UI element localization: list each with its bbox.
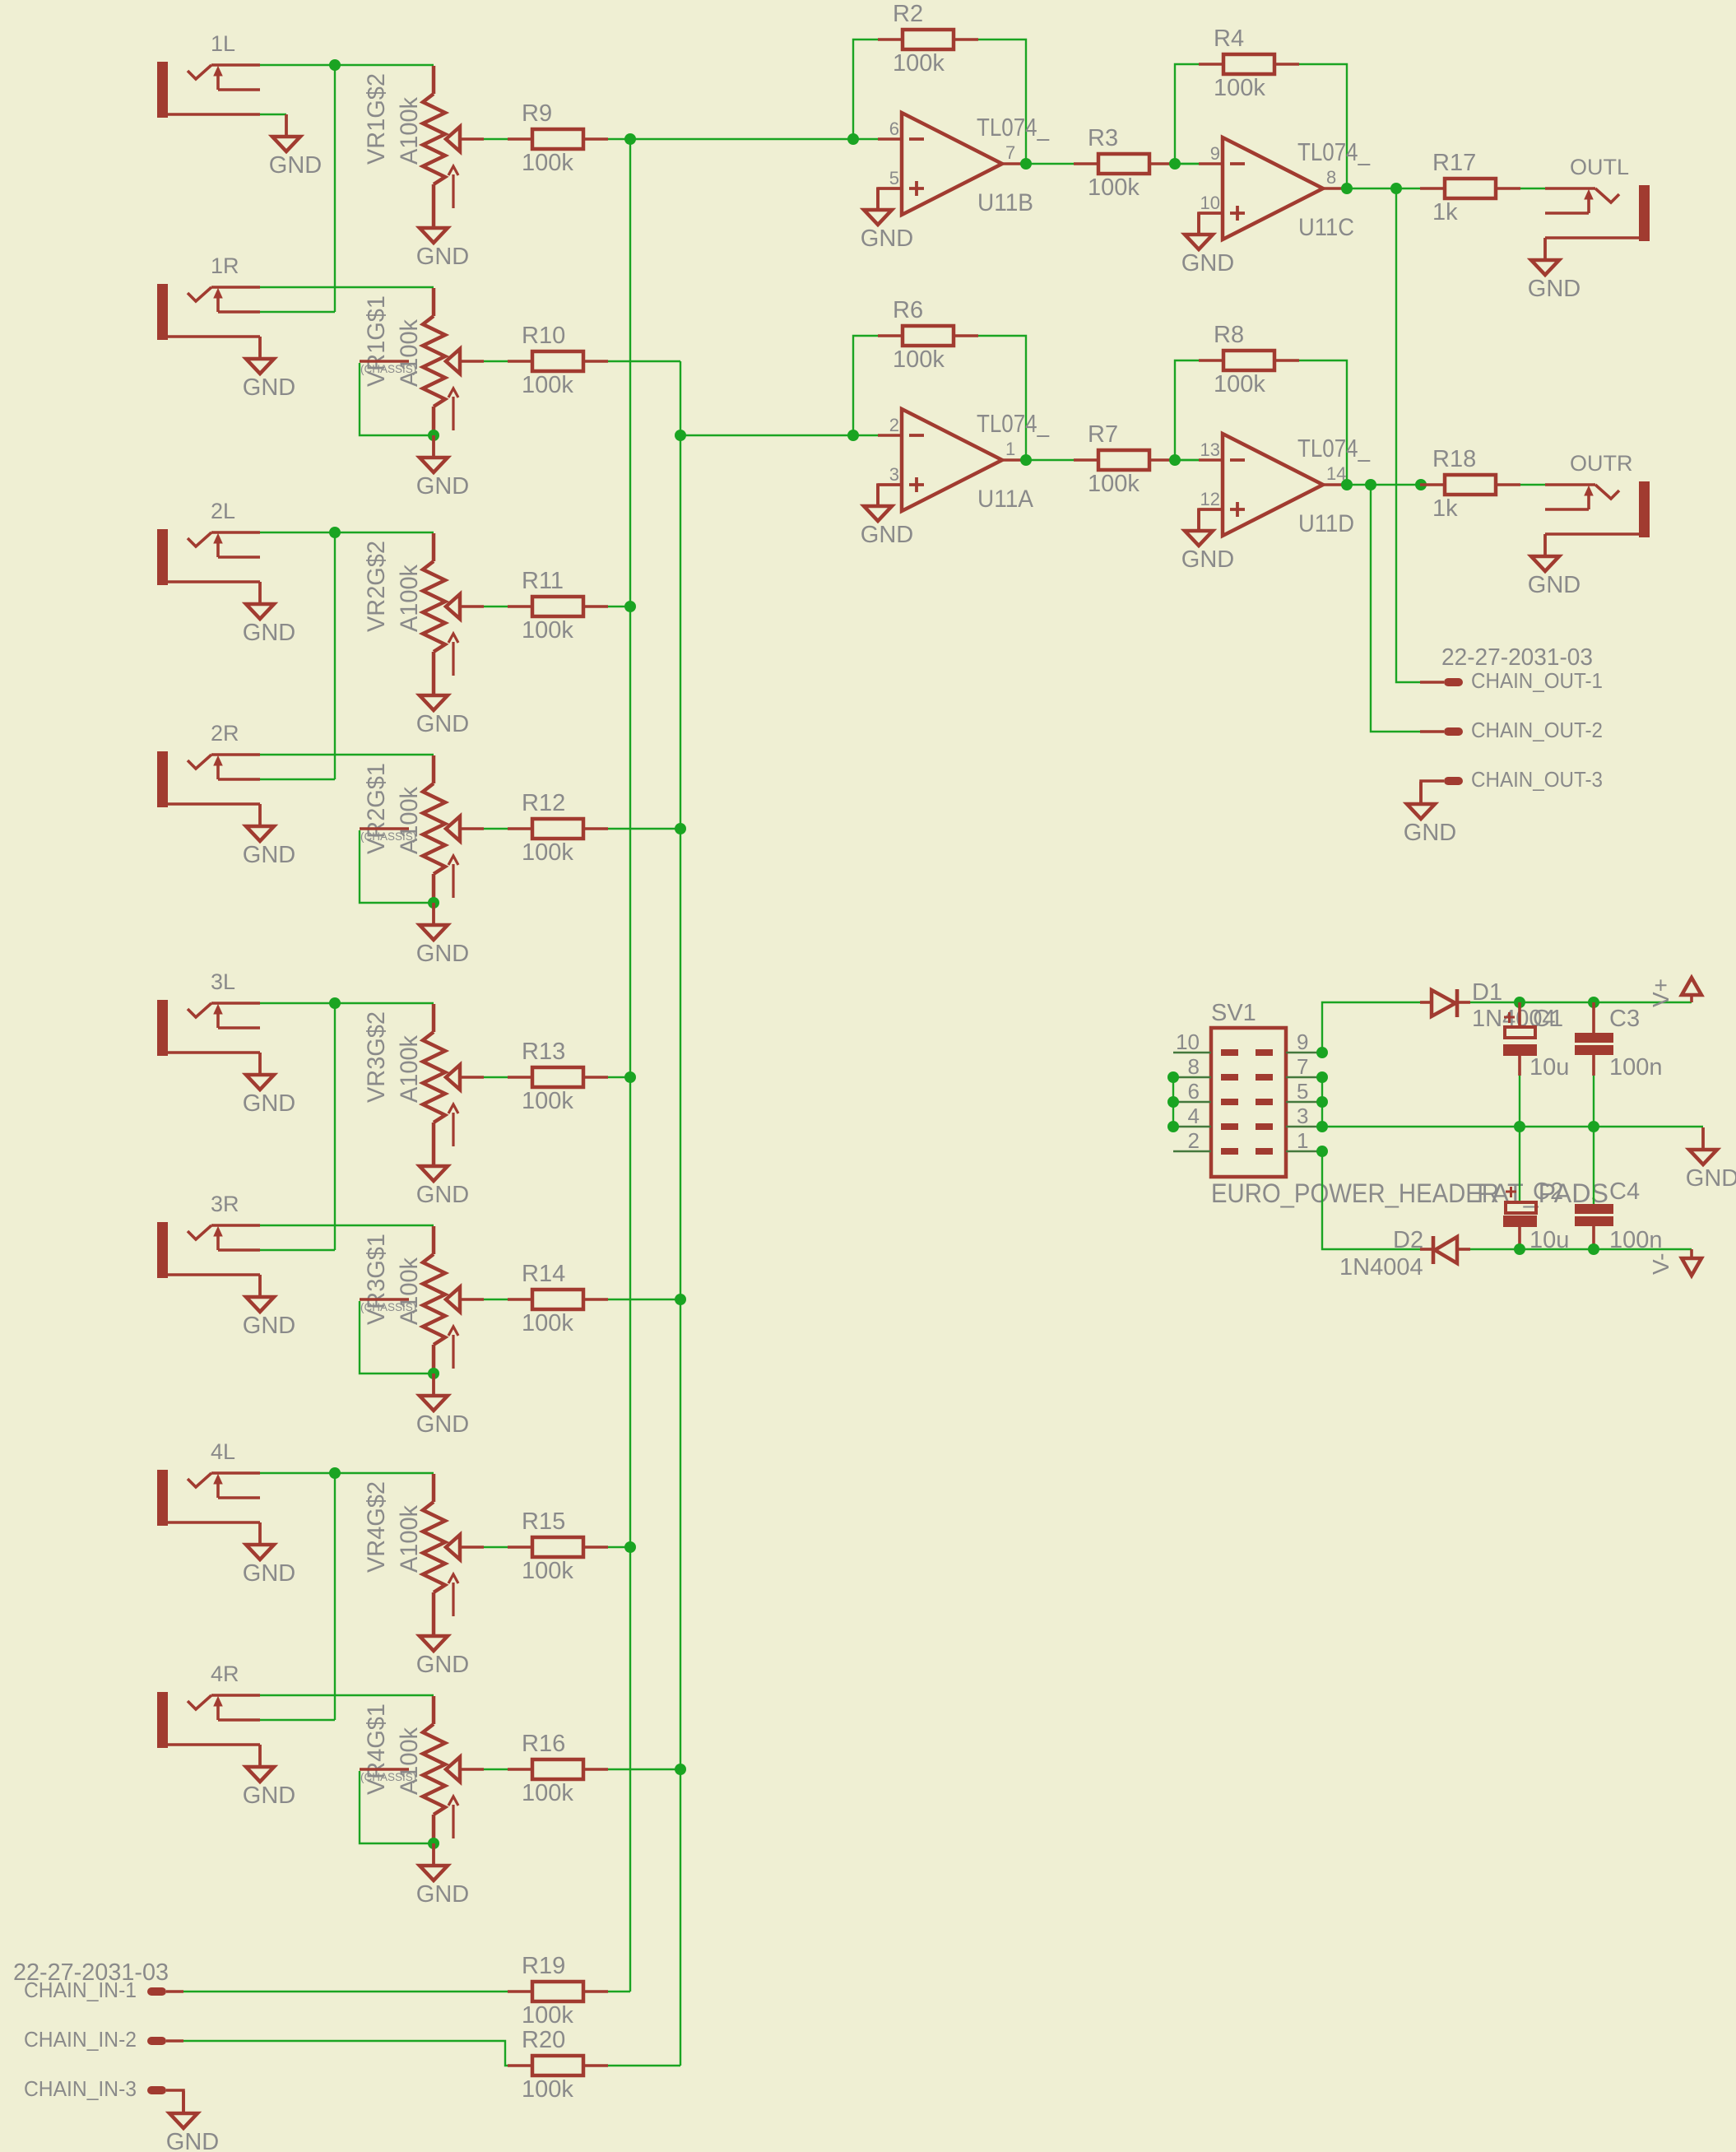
wire +12V raw [1322, 1002, 1420, 1053]
op-amp U11B [878, 113, 1050, 216]
svg-text:4: 4 [1188, 1104, 1200, 1128]
pin SV1-5 [1256, 1079, 1322, 1105]
jack 2L [157, 499, 260, 585]
wire [484, 360, 508, 362]
wire [432, 1592, 436, 1636]
svg-text:GND: GND [1528, 572, 1581, 598]
junction [1169, 454, 1181, 466]
wire [1175, 459, 1199, 461]
junction under VR4G$1 [428, 1838, 439, 1849]
wire feedback R2 [853, 40, 878, 139]
wire [260, 114, 286, 115]
pin SV1-1 [1256, 1128, 1322, 1155]
svg-text:3: 3 [889, 464, 899, 485]
junction [1514, 1243, 1525, 1255]
svg-text:R13: R13 [522, 1039, 565, 1065]
junction L-bus R9 [624, 133, 636, 145]
resistor R14 [508, 1261, 608, 1336]
chassis pin of VR2G$1 [360, 829, 432, 903]
svg-text:100k: 100k [522, 1558, 573, 1584]
ground [269, 114, 322, 179]
svg-text:1: 1 [1297, 1128, 1308, 1153]
junction U11A input [847, 430, 859, 441]
ground [166, 2091, 219, 2152]
wire [1520, 484, 1545, 486]
svg-text:R7: R7 [1088, 421, 1118, 448]
pin SV1-7 [1256, 1054, 1322, 1081]
wire 4L tip [260, 1472, 434, 1474]
svg-text:OUTR: OUTR [1570, 451, 1633, 476]
wire 1R tip [260, 286, 434, 288]
resistor R2 [878, 1, 978, 77]
svg-text:R4: R4 [1214, 26, 1244, 52]
ground [243, 1745, 295, 1809]
svg-text:C1: C1 [1533, 1006, 1563, 1032]
connector SV1 EURO_POWER_HEADER [1211, 1000, 1608, 1208]
junction [1316, 1121, 1328, 1132]
svg-text:GND: GND [416, 711, 469, 737]
jack 1R [157, 253, 260, 340]
svg-text:VR4G$2: VR4G$2 [363, 1481, 390, 1573]
ground [416, 435, 469, 500]
junction under VR3G$1 [428, 1368, 439, 1379]
resistor R3 [1074, 125, 1174, 201]
junction [1167, 1096, 1179, 1108]
potentiometer VR1G$1 [363, 288, 484, 430]
svg-text:A100k: A100k [396, 787, 423, 854]
wire [432, 652, 436, 695]
svg-text:100k: 100k [522, 150, 573, 176]
wire [608, 1991, 630, 1992]
wire [484, 1769, 508, 1770]
svg-text:2: 2 [1188, 1128, 1200, 1153]
junction R-bus R12 [675, 823, 686, 834]
svg-text:SV1: SV1 [1211, 1000, 1256, 1026]
wire CHAIN_IN-1 to R19 [183, 1991, 508, 1992]
op-amp U11A [878, 409, 1050, 513]
svg-text:OUTL: OUTL [1570, 155, 1629, 179]
ground [416, 1144, 469, 1208]
svg-text:GND: GND [861, 522, 913, 548]
junction R-bus R16 [675, 1764, 686, 1775]
svg-text:GND: GND [1181, 250, 1234, 277]
wire [484, 1076, 508, 1078]
svg-text:TL074_: TL074_ [1297, 434, 1371, 462]
svg-text:5: 5 [1297, 1079, 1308, 1104]
svg-text:R16: R16 [522, 1731, 565, 1757]
pin SV1-2 [1173, 1128, 1238, 1155]
svg-text:3R: 3R [211, 1192, 239, 1216]
svg-text:R8: R8 [1214, 322, 1244, 348]
pin CHAIN_OUT-2 [1420, 719, 1603, 742]
junction R-bus R14 [675, 1294, 686, 1305]
svg-text:A100k: A100k [396, 1257, 423, 1325]
ground [861, 188, 913, 252]
wire V- rail [1470, 1248, 1692, 1250]
chassis pin of VR3G$1 [360, 1299, 432, 1373]
wire [1593, 1076, 1594, 1127]
svg-text:CHAIN_OUT-1: CHAIN_OUT-1 [1471, 670, 1603, 693]
wire CHAIN_IN-2 to R20 [183, 2041, 508, 2066]
resistor R15 [508, 1508, 608, 1584]
wire [1519, 1127, 1520, 1202]
svg-text:100k: 100k [893, 346, 945, 373]
svg-text:GND: GND [243, 374, 295, 401]
junction L-bus R11 [624, 601, 636, 612]
pin CHAIN_IN-2 [24, 2029, 183, 2052]
chassis pin of VR4G$1 [360, 1769, 432, 1843]
wire [608, 360, 680, 362]
svg-text:6: 6 [889, 119, 899, 139]
svg-text:GND: GND [243, 1313, 295, 1339]
resistor R12 [508, 790, 608, 866]
ground [416, 1373, 469, 1438]
ground [243, 804, 295, 868]
svg-text:VR2G$2: VR2G$2 [363, 541, 390, 632]
ground [243, 1522, 295, 1587]
ground [243, 337, 295, 401]
pin SV1-3 [1256, 1104, 1322, 1130]
svg-text:GND: GND [1528, 276, 1581, 302]
svg-text:CHAIN_OUT-3: CHAIN_OUT-3 [1471, 769, 1603, 792]
pin SV1-8 [1173, 1054, 1238, 1081]
potentiometer VR4G$1 [363, 1696, 484, 1838]
svg-text:R17: R17 [1432, 150, 1476, 176]
svg-text:GND: GND [1686, 1165, 1736, 1192]
potentiometer VR1G$2 [363, 66, 484, 208]
svg-text:C2: C2 [1533, 1178, 1563, 1205]
wire [484, 138, 508, 140]
svg-text:A100k: A100k [396, 1505, 423, 1573]
pin SV1-10 [1173, 1030, 1238, 1056]
wire [432, 874, 436, 903]
pin SV1-9 [1256, 1030, 1322, 1056]
svg-text:GND: GND [243, 620, 295, 646]
svg-text:R19: R19 [522, 1953, 565, 1979]
junction chain tap R [1365, 479, 1376, 490]
potentiometer VR3G$2 [363, 1004, 484, 1146]
jack 3R [157, 1192, 260, 1278]
wire 2L tip [260, 532, 434, 533]
svg-text:9: 9 [1210, 143, 1220, 164]
ground [243, 1053, 295, 1117]
junction U11B input [847, 133, 859, 145]
ground [243, 582, 295, 646]
svg-text:CHAIN_IN-3: CHAIN_IN-3 [24, 2078, 137, 2101]
svg-text:1: 1 [1005, 439, 1015, 459]
svg-text:100k: 100k [522, 617, 573, 644]
potentiometer VR2G$2 [363, 533, 484, 676]
svg-text:TL074_: TL074_ [977, 113, 1050, 142]
ground [243, 1275, 295, 1339]
ground [1528, 238, 1581, 302]
junction [1167, 1071, 1179, 1083]
wire [1026, 459, 1074, 461]
junction under VR1G$1 [428, 430, 439, 441]
wire [878, 188, 902, 210]
resistor R18 [1420, 446, 1520, 522]
svg-text:8: 8 [1188, 1054, 1200, 1079]
diode D2 (1N4004) [1339, 1227, 1470, 1281]
wire node MIXR bus [680, 361, 681, 2066]
pin CHAIN_IN-1 [24, 1979, 183, 2002]
svg-text:1L: 1L [211, 31, 235, 56]
svg-text:CHAIN_IN-2: CHAIN_IN-2 [24, 2029, 137, 2052]
jack OUTR [1545, 451, 1650, 537]
potentiometer VR4G$2 [363, 1474, 484, 1616]
jack OUTL [1545, 155, 1650, 241]
ground [416, 206, 469, 270]
jack 4L [157, 1439, 260, 1526]
svg-text:GND: GND [1404, 820, 1456, 846]
svg-text:A100k: A100k [396, 565, 423, 632]
svg-text:8: 8 [1326, 167, 1336, 188]
svg-text:100k: 100k [1214, 371, 1265, 397]
svg-text:A100k: A100k [396, 1035, 423, 1103]
svg-text:D2: D2 [1393, 1227, 1423, 1253]
jack 3L [157, 969, 260, 1056]
wire gnd left pins [1172, 1077, 1174, 1127]
svg-text:10: 10 [1176, 1030, 1200, 1054]
wire feedback R6 [853, 336, 878, 435]
svg-text:GND: GND [416, 1182, 469, 1208]
svg-text:5: 5 [889, 168, 899, 188]
svg-text:TL074_: TL074_ [977, 409, 1050, 438]
svg-text:R12: R12 [522, 790, 565, 816]
junction [1316, 1146, 1328, 1157]
jack 1L [157, 31, 260, 118]
svg-text:7: 7 [1005, 142, 1015, 163]
svg-text:4R: 4R [211, 1662, 239, 1686]
wire -12V raw [1322, 1151, 1420, 1249]
svg-text:CHAIN_OUT-2: CHAIN_OUT-2 [1471, 719, 1603, 742]
svg-text:10: 10 [1200, 193, 1220, 213]
ground [416, 903, 469, 967]
svg-text:(CHASSIS): (CHASSIS) [360, 1771, 416, 1783]
svg-text:12: 12 [1200, 489, 1220, 509]
svg-text:EURO_POWER_HEADER: EURO_POWER_HEADER [1211, 1178, 1499, 1208]
svg-text:VR1G$2: VR1G$2 [363, 73, 390, 165]
svg-text:(CHASSIS): (CHASSIS) [360, 1301, 416, 1313]
pin CHAIN_IN-3 [24, 2078, 183, 2113]
wire [1519, 1076, 1520, 1127]
svg-text:R15: R15 [522, 1508, 565, 1535]
capacitor C3 (100n) [1575, 1002, 1663, 1081]
wire [484, 1299, 508, 1300]
supply V- [1648, 1249, 1701, 1276]
jack 4R [157, 1662, 260, 1748]
svg-text:GND: GND [416, 473, 469, 500]
svg-text:10u: 10u [1529, 1054, 1569, 1081]
wire 4R tip [260, 1694, 434, 1696]
junction [1167, 1121, 1179, 1132]
wire 2R tip [260, 754, 434, 755]
wire GND rail [1322, 1126, 1703, 1127]
svg-text:100k: 100k [522, 1310, 573, 1336]
junction output U11B [1020, 158, 1032, 170]
svg-text:R14: R14 [522, 1261, 565, 1287]
potentiometer VR3G$1 [363, 1226, 484, 1369]
junction [1415, 479, 1427, 490]
wire feedback R8 [1175, 360, 1199, 460]
svg-text:100k: 100k [1214, 75, 1265, 101]
svg-text:R2: R2 [893, 1, 923, 27]
svg-text:A100k: A100k [396, 1727, 423, 1795]
junction [1316, 1047, 1328, 1058]
capacitor C2 (10u) [1503, 1178, 1569, 1253]
ground [861, 484, 913, 548]
junction L-bus R13 [624, 1071, 636, 1083]
svg-text:(CHASSIS): (CHASSIS) [360, 363, 416, 375]
pin SV1-6 [1173, 1079, 1238, 1105]
svg-text:A100k: A100k [396, 319, 423, 387]
svg-text:GND: GND [243, 1560, 295, 1587]
wire feedback R4 [1175, 64, 1199, 164]
svg-text:U11B: U11B [977, 189, 1033, 216]
svg-text:22-27-2031-03: 22-27-2031-03 [1441, 644, 1593, 671]
svg-text:R10: R10 [522, 323, 565, 349]
ground [1181, 212, 1234, 277]
junction [1316, 1071, 1328, 1083]
wire [1199, 213, 1223, 235]
wire [432, 1122, 436, 1166]
connector CHAIN_OUT (22-27-2031-03) [1441, 644, 1593, 671]
resistor R8 [1199, 322, 1299, 397]
junction [1316, 1096, 1328, 1108]
wire [1199, 509, 1223, 531]
wire normal 3L to 3R switch [334, 1003, 336, 1250]
resistor R20 [508, 2027, 608, 2103]
svg-text:GND: GND [416, 1881, 469, 1908]
resistor R16 [508, 1731, 608, 1806]
junction 4L tip [329, 1467, 341, 1479]
ground [416, 1843, 469, 1908]
svg-text:3L: 3L [211, 969, 235, 994]
junction 1L tip [329, 59, 341, 71]
junction output U11C [1341, 183, 1353, 194]
op-amp U11D [1199, 434, 1371, 537]
wire [878, 485, 902, 506]
junction output U11A [1020, 454, 1032, 466]
connector CHAIN_IN (22-27-2031-03) [13, 1959, 169, 1986]
svg-text:R18: R18 [1432, 446, 1476, 472]
wire gnd right pins [1321, 1077, 1323, 1127]
svg-text:2: 2 [889, 415, 899, 435]
wire [1520, 188, 1545, 189]
svg-text:GND: GND [243, 1090, 295, 1117]
svg-text:100k: 100k [1088, 471, 1140, 497]
supply V+ [1648, 978, 1701, 1007]
wire [608, 606, 630, 607]
junction MIXR [675, 430, 686, 441]
ground [416, 673, 469, 737]
junction under VR2G$1 [428, 897, 439, 909]
diode D1 (1N4004) [1420, 979, 1556, 1032]
pin CHAIN_OUT-1 [1420, 670, 1603, 693]
junction output U11D [1341, 479, 1353, 490]
wire [608, 828, 680, 830]
svg-text:C4: C4 [1609, 1178, 1640, 1205]
wire [978, 40, 1026, 164]
wire MIXL to U11B [630, 138, 878, 140]
capacitor C4 (100n) [1575, 1178, 1663, 1253]
junction L-bus R15 [624, 1541, 636, 1553]
wire 1L tip [260, 64, 434, 66]
svg-text:100k: 100k [522, 2076, 573, 2103]
ground [1181, 509, 1234, 573]
ground [1686, 1127, 1736, 1192]
svg-text:R6: R6 [893, 297, 923, 323]
svg-text:R3: R3 [1088, 125, 1118, 151]
svg-text:1k: 1k [1432, 199, 1458, 225]
wire 3L tip [260, 1002, 434, 1004]
svg-text:7: 7 [1297, 1054, 1308, 1079]
junction [1588, 1121, 1599, 1132]
svg-text:GND: GND [416, 941, 469, 967]
svg-text:CHAIN_IN-1: CHAIN_IN-1 [24, 1979, 137, 2002]
resistor R4 [1199, 26, 1299, 101]
pin CHAIN_OUT-3 [1421, 769, 1603, 804]
wire normal 2L to 2R switch [334, 532, 336, 779]
wire 3R tip [260, 1225, 434, 1226]
wire V+ rail [1470, 1002, 1692, 1003]
capacitor C1 (10u) [1503, 1002, 1569, 1081]
svg-text:1N4004: 1N4004 [1339, 1254, 1423, 1281]
svg-text:GND: GND [861, 225, 913, 252]
ground [1528, 534, 1581, 598]
wire [432, 407, 436, 435]
svg-text:100k: 100k [522, 1088, 573, 1114]
svg-text:GND: GND [269, 152, 322, 179]
wire MIXR to U11A [680, 435, 878, 436]
wire [484, 828, 508, 830]
svg-text:R9: R9 [522, 100, 552, 127]
junction 3L tip [329, 997, 341, 1009]
wire [484, 606, 508, 607]
svg-text:V-: V- [1648, 1253, 1673, 1275]
wire [608, 1299, 680, 1300]
svg-text:4L: 4L [211, 1439, 235, 1464]
wire [1174, 163, 1199, 165]
junction 2L tip [329, 527, 341, 538]
ground [1404, 782, 1456, 846]
wire node MIXL bus [629, 139, 631, 1992]
svg-text:U11A: U11A [977, 486, 1033, 513]
resistor R10 [508, 323, 608, 398]
resistor R17 [1420, 150, 1520, 225]
wire [484, 1546, 508, 1548]
resistor R19 [508, 1953, 608, 2029]
svg-text:100k: 100k [893, 50, 945, 77]
junction [1588, 1243, 1599, 1255]
resistor R13 [508, 1039, 608, 1114]
wire normal 4L to 4R switch [334, 1473, 336, 1720]
svg-text:GND: GND [1181, 546, 1234, 573]
pin SV1-4 [1173, 1104, 1238, 1130]
wire [1347, 484, 1420, 486]
svg-text:6: 6 [1188, 1079, 1200, 1104]
svg-text:(CHASSIS): (CHASSIS) [360, 830, 416, 843]
svg-text:2L: 2L [211, 499, 235, 523]
wire [608, 2065, 680, 2066]
svg-text:GND: GND [416, 244, 469, 270]
chassis pin of VR1G$1 [360, 361, 432, 435]
resistor R9 [508, 100, 608, 176]
resistor R7 [1074, 421, 1174, 497]
svg-text:1k: 1k [1432, 495, 1458, 522]
wire [1347, 188, 1420, 189]
svg-text:GND: GND [243, 1782, 295, 1809]
